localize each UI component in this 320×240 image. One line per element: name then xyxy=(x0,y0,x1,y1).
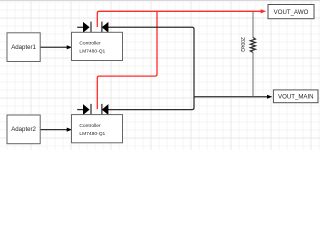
svg-text:Controller: Controller xyxy=(79,123,101,129)
svg-text:Adapter1: Adapter1 xyxy=(11,44,36,51)
svg-text:200kΩ: 200kΩ xyxy=(239,37,245,52)
svg-text:Adapter2: Adapter2 xyxy=(11,126,36,133)
svg-text:LM7480-Q1: LM7480-Q1 xyxy=(79,131,105,137)
svg-text:Controller: Controller xyxy=(79,41,101,47)
svg-text:LM7480-Q1: LM7480-Q1 xyxy=(79,49,105,55)
svg-text:VOUT_MAIN: VOUT_MAIN xyxy=(278,94,314,101)
svg-text:VOUT_AWO: VOUT_AWO xyxy=(274,9,309,16)
